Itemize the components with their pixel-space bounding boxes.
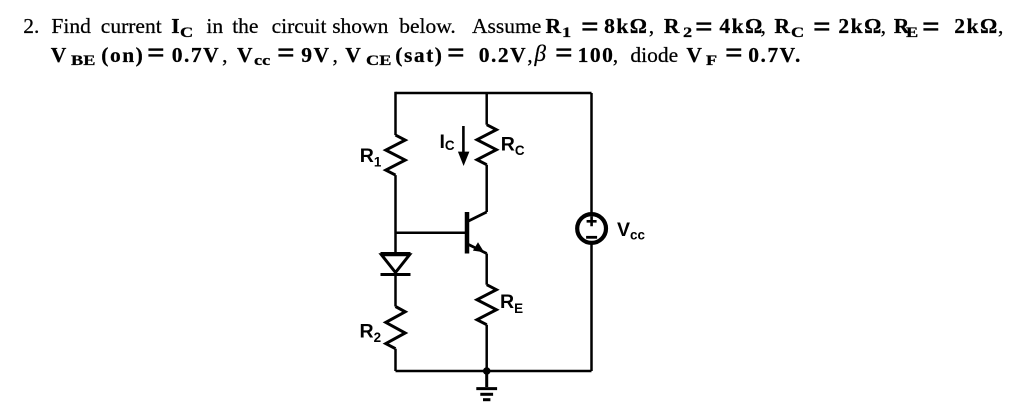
wire diode to R2	[394, 275, 397, 307]
diode D1	[381, 254, 411, 275]
svg-text:R1: R1	[360, 145, 382, 170]
ground	[476, 371, 497, 400]
wire middle branch top	[485, 93, 488, 125]
arrow Ic current	[458, 126, 470, 166]
wire RC to collector	[485, 165, 488, 212]
source Vcc	[577, 214, 606, 243]
resistor RC	[477, 125, 496, 165]
svg-text:RE: RE	[500, 291, 523, 316]
problem text line 1	[23, 16, 39, 38]
svg-text:Vcc: Vcc	[617, 219, 645, 243]
resistor R2	[386, 307, 405, 349]
node emitter-ground junction	[483, 367, 491, 375]
wire top rail	[396, 92, 592, 95]
wire left branch upper	[394, 92, 397, 135]
wire emitter to RE	[485, 254, 488, 285]
svg-text:IC: IC	[440, 131, 455, 153]
svg-text:R2: R2	[360, 320, 382, 345]
wire RE to bottom rail	[485, 325, 488, 371]
resistor R1	[386, 135, 405, 175]
wire R1 to diode	[394, 175, 397, 253]
wire Vcc to bottom rail	[590, 244, 593, 371]
wire right branch upper	[590, 93, 593, 213]
resistor RE	[477, 285, 496, 325]
transistor Q1	[467, 212, 487, 254]
wire base connection	[396, 232, 466, 235]
svg-text:RC: RC	[501, 133, 525, 158]
problem text line 2	[51, 45, 67, 67]
wire R2 to bottom rail	[394, 349, 397, 371]
wire bottom rail	[396, 370, 592, 373]
